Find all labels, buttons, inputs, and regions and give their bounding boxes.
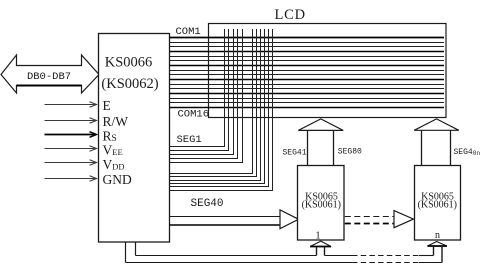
wire VDD input arrow [45,160,97,166]
wire COM14 [170,98,445,100]
svg-text:(KS0062): (KS0062) [101,76,158,92]
svg-text:SEG41: SEG41 [283,148,307,157]
bus arrow driver 1 to driver n (dashed) [345,211,414,228]
wire GND input arrow [45,176,97,182]
wire COM4 [170,51,445,53]
wire SEG5 elbow [170,29,243,163]
wire SEG40 elbow [170,29,273,191]
svg-text:DB0-DB7: DB0-DB7 [27,71,71,83]
wire SEG1 elbow [170,29,225,147]
wire VEE input arrow [45,146,97,152]
wire R/W input arrow [45,118,97,124]
block U3 segment driver KS0065 #n [415,166,461,241]
block arrow driver n to LCD [414,119,459,166]
wire COM7 [170,65,445,67]
wire SEG39 elbow [170,29,269,187]
wire SEG4 elbow [170,29,238,159]
wire drop B from KS0066 bottom [135,242,137,256]
wire SEG2 elbow [170,29,229,151]
wire E input arrow [45,102,97,108]
wire drop A from KS0066 bottom [125,242,127,263]
svg-text:n: n [435,230,440,241]
wire COM5 [170,56,445,58]
block LCD panel [209,24,447,118]
svg-text:(KS0061): (KS0061) [302,200,341,211]
wire SEG3 elbow [170,29,234,155]
wire COM6 [170,60,445,62]
svg-text:SEG1: SEG1 [177,134,202,146]
svg-text:KS0066: KS0066 [105,55,153,71]
svg-text:1: 1 [315,230,320,241]
svg-text:SEG40n: SEG40n [454,148,481,157]
wire RS input arrow [45,132,97,138]
wire COM16 [170,107,445,109]
svg-text:R/W: R/W [103,114,129,129]
block arrow bus to driver n bottom [428,242,447,263]
svg-text:GND: GND [103,172,132,187]
svg-text:LCD: LCD [275,7,306,23]
wire COM10 [170,79,445,81]
block U1 controller KS0066 [99,34,170,243]
svg-text:COM1: COM1 [176,26,201,38]
wire SEG37 elbow [170,29,261,181]
wire COM8 [170,70,445,72]
wire COM1 [170,37,445,39]
svg-text:E: E [103,98,111,113]
wire COM3 [170,46,445,48]
wire COM11 [170,84,445,86]
wire SEG38 elbow [170,29,265,184]
wire COM13 [170,93,445,95]
block U2 segment driver KS0065 #1 [298,166,345,241]
wire COM15 [170,102,445,104]
wire bus1 upper bottom bus [136,255,434,257]
wire SEG36 elbow [170,29,257,177]
svg-text:COM16: COM16 [178,109,210,121]
wire COM12 [170,88,445,90]
wire COM9 [170,74,445,76]
wire COM2 [170,42,445,44]
block arrow driver 1 to LCD [298,119,343,166]
svg-text:SEG40: SEG40 [191,198,224,210]
wire bus2 lower bottom bus [126,262,443,264]
svg-text:(KS0061): (KS0061) [418,200,457,211]
bus DB0-DB7 double-headed block arrow [1,55,99,93]
block arrow bus to driver 1 bottom [310,241,331,255]
svg-text:SEG80: SEG80 [338,147,362,156]
wire SEG35 elbow [170,29,253,174]
bus arrow KS0066 to driver 1 [170,210,299,229]
